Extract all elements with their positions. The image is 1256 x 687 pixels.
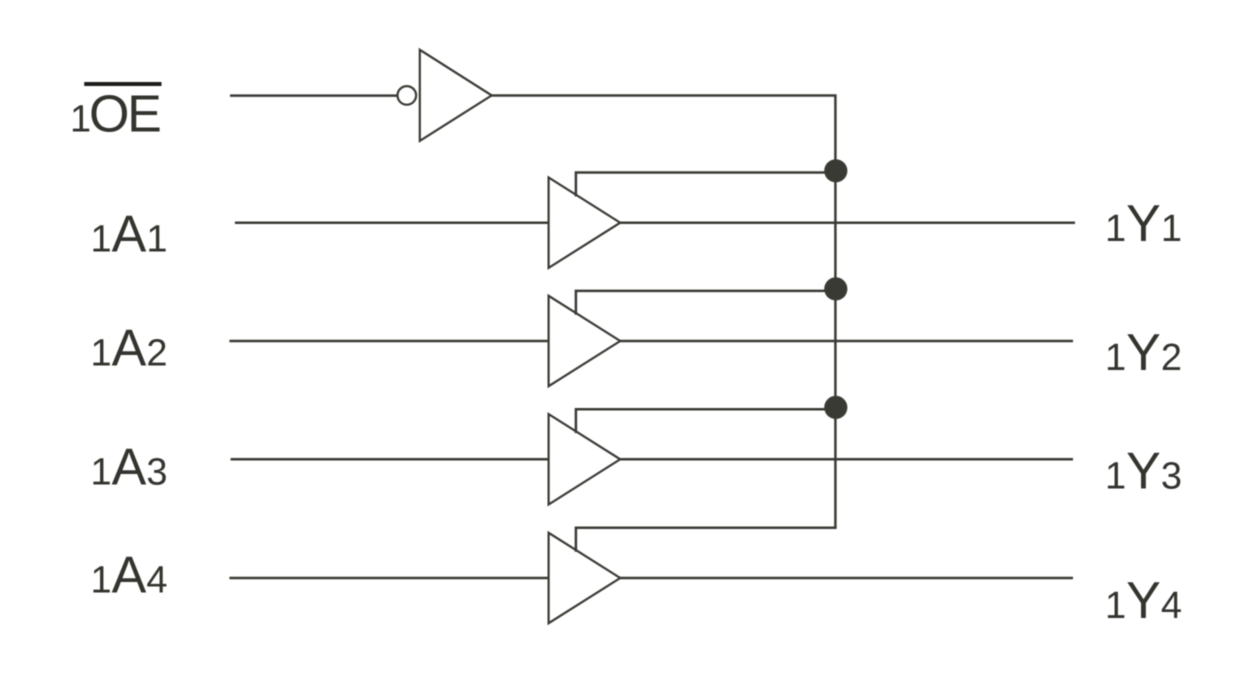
inverter bubble on U1 input xyxy=(398,86,417,105)
svg-text:1A2: 1A2 xyxy=(91,319,168,377)
wire 1OE input segment xyxy=(230,94,397,97)
svg-text:1Y2: 1Y2 xyxy=(1105,324,1182,382)
junction dot row 1 xyxy=(824,159,847,182)
svg-text:1A4: 1A4 xyxy=(91,547,168,605)
wire inverter output to enable bus (net 1OE_INT) xyxy=(492,96,836,528)
wire enable stub to buffer G1 xyxy=(576,173,836,197)
wire 1Y1 output xyxy=(620,221,1075,224)
wire 1A3 input xyxy=(231,458,550,461)
overline bar over OE xyxy=(84,82,161,86)
buffer G3 triangle xyxy=(549,414,621,504)
wire 1A4 input xyxy=(229,577,549,580)
wire 1Y3 output xyxy=(620,458,1073,461)
wire enable stub to buffer G2 xyxy=(576,291,836,315)
buffer G2 triangle xyxy=(549,296,621,386)
junction dot row 3 xyxy=(824,396,847,419)
svg-text:1Y3: 1Y3 xyxy=(1105,443,1182,501)
wire 1A2 input xyxy=(229,340,549,343)
svg-text:1A3: 1A3 xyxy=(91,439,168,497)
wire 1Y4 output xyxy=(620,577,1073,580)
junction dot row 2 xyxy=(824,277,847,300)
wire enable stub to buffer G4 xyxy=(576,528,837,552)
svg-text:1OE: 1OE xyxy=(70,85,160,143)
wire 1A1 input xyxy=(235,221,550,224)
wire enable stub to buffer G3 xyxy=(576,409,836,433)
wire 1Y2 output xyxy=(620,340,1073,343)
svg-text:1Y1: 1Y1 xyxy=(1105,195,1182,253)
svg-text:1A1: 1A1 xyxy=(91,206,168,264)
buffer G4 triangle xyxy=(549,533,621,623)
svg-text:1Y4: 1Y4 xyxy=(1105,572,1182,630)
inverter U1 triangle xyxy=(420,50,492,141)
buffer G1 triangle xyxy=(549,178,621,268)
